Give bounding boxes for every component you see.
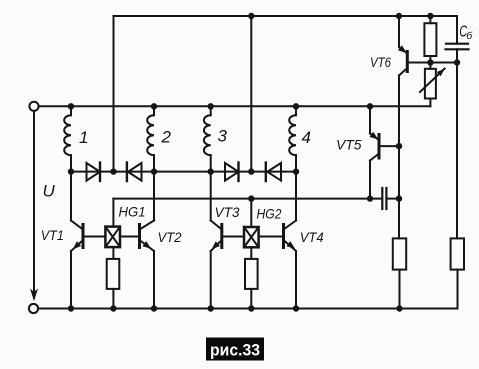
- wire riser x=113.5 from top rail to diode row: [113, 16, 115, 172]
- wire R1 to bottom rail: [112, 289, 114, 309]
- diode VD4: [266, 163, 281, 182]
- wire HG rail y=198.6 right of C1: [386, 198, 399, 200]
- wire main bus y=106.3: [39, 105, 431, 107]
- wire R6 to bottom rail corner: [457, 270, 459, 309]
- junction dots HG rail: [248, 195, 402, 201]
- resistor R5 bottom mid: [393, 238, 406, 269]
- inductor L4: [289, 106, 296, 171]
- wire HG1 riser x=113.4: [112, 199, 114, 227]
- wire R2 to bottom rail: [250, 289, 252, 309]
- junction dots top rail: [248, 13, 433, 19]
- junction dots bottom rail: [68, 305, 403, 311]
- terminal bottom-left input: [29, 304, 38, 313]
- svg-text:рис.33: рис.33: [210, 342, 260, 360]
- lamp HG1: [105, 227, 120, 248]
- wire R5 to bottom rail: [399, 270, 401, 309]
- capacitor Cb: [446, 16, 469, 63]
- svg-text:VT5: VT5: [336, 137, 362, 153]
- svg-text:3: 3: [218, 127, 228, 146]
- wire bottom rail y=308.5: [38, 308, 457, 310]
- junction dots main bus: [68, 103, 373, 109]
- wire HG2 riser x=251.3: [250, 199, 252, 227]
- transistor VT5: [370, 106, 400, 198]
- junction dots diode row: [68, 168, 299, 174]
- svg-text:1: 1: [79, 128, 88, 147]
- inductor L3: [204, 106, 211, 171]
- svg-text:U: U: [43, 182, 56, 201]
- junction dots VT6 base row: [427, 59, 460, 65]
- resistor R2: [245, 259, 258, 289]
- wire HG1 to R1: [112, 247, 114, 259]
- wire riser x=251.3 from top rail to diode row: [250, 16, 252, 172]
- svg-text:HG2: HG2: [257, 206, 282, 222]
- svg-text:VT2: VT2: [158, 229, 182, 245]
- wire right column x=457 from node to R6: [456, 63, 458, 239]
- svg-text:VT3: VT3: [215, 204, 240, 220]
- svg-text:VT4: VT4: [300, 229, 324, 245]
- arrow U polarity arrowhead: [30, 289, 38, 302]
- wire top rail y=16: [114, 15, 458, 17]
- svg-text:2: 2: [161, 128, 172, 147]
- lamp HG2: [244, 227, 259, 247]
- resistor R6 bottom right: [451, 238, 464, 269]
- wire HG2 to R2: [250, 247, 252, 259]
- resistor R3 top: [424, 16, 436, 63]
- diode VD2: [127, 163, 142, 182]
- svg-text:4: 4: [302, 128, 311, 147]
- caption figure label: [206, 338, 264, 361]
- diode VD3: [225, 163, 239, 182]
- transistor VT1: [71, 172, 105, 309]
- wire diode row y=171.6: [71, 171, 296, 173]
- diode VD1: [87, 163, 101, 182]
- transistor VT3: [211, 172, 244, 309]
- transistor VT4: [259, 172, 296, 309]
- junction dot VT5 base: [396, 143, 402, 149]
- transistor VT2: [120, 172, 154, 309]
- svg-text:VT1: VT1: [41, 227, 64, 243]
- svg-text:VT6: VT6: [370, 54, 391, 70]
- svg-text:б: б: [466, 30, 473, 42]
- capacitor C1 coupling: [382, 188, 386, 209]
- label Cb: [459, 24, 473, 42]
- resistor R1: [107, 259, 120, 289]
- inductor L1: [64, 106, 71, 171]
- resistor R4 variable: [420, 63, 445, 107]
- transistor VT6: [398, 16, 457, 238]
- svg-text:HG1: HG1: [119, 204, 146, 220]
- wire HG rail y=198.6 left of C1: [113, 198, 382, 200]
- wire U line vertical between terminals: [33, 111, 35, 298]
- inductor L2: [147, 106, 154, 171]
- terminal top-left input: [29, 102, 38, 111]
